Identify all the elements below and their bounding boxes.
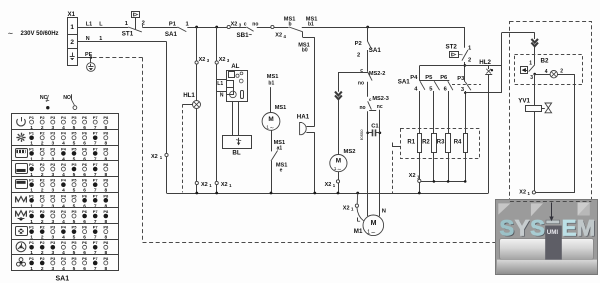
motor M1 — [354, 208, 386, 236]
connector pin X2:3 — [195, 57, 210, 64]
svg-text:X2: X2 — [343, 205, 350, 211]
svg-text:2: 2 — [357, 52, 360, 58]
svg-text:e: e — [280, 168, 283, 174]
svg-text:P1: P1 — [29, 131, 35, 136]
node B2 junction 3 — [533, 73, 536, 76]
svg-text:YV1: YV1 — [518, 98, 530, 105]
svg-text:X2: X2 — [409, 173, 416, 179]
svg-text:P1: P1 — [29, 178, 35, 183]
svg-text:P4: P4 — [61, 209, 67, 214]
svg-text:P6: P6 — [440, 75, 448, 81]
svg-text:X1: X1 — [68, 11, 76, 18]
svg-text:L1: L1 — [217, 81, 223, 87]
ignition unit AL — [217, 63, 248, 101]
svg-text:P7: P7 — [93, 146, 99, 151]
wires contacts to resistors — [420, 91, 466, 134]
svg-text:X2: X2 — [199, 57, 206, 63]
wire right riser to B2 — [502, 33, 535, 93]
svg-text:4: 4 — [62, 266, 65, 272]
svg-text:S: S — [500, 216, 515, 241]
svg-text:X2: X2 — [231, 22, 238, 28]
svg-text:P8: P8 — [103, 193, 109, 198]
svg-text:R4: R4 — [454, 140, 462, 146]
svg-text:7: 7 — [94, 266, 97, 272]
svg-text:P5: P5 — [72, 162, 78, 167]
resistor R4 — [454, 134, 468, 153]
svg-text:M: M — [268, 116, 273, 123]
svg-text:P1: P1 — [169, 21, 177, 27]
svg-text:P3: P3 — [50, 225, 56, 230]
svg-text:P2: P2 — [40, 115, 46, 120]
svg-text:P2: P2 — [40, 162, 46, 167]
wire resistor collector — [421, 180, 467, 183]
svg-text:P1: P1 — [29, 240, 35, 245]
connector pin X2:1 for M1 — [343, 193, 359, 212]
wire HL2 to bottom bus — [488, 74, 490, 193]
connector pin X2:1 under R1 — [409, 173, 421, 193]
svg-text:P7: P7 — [93, 178, 99, 183]
svg-text:MS1: MS1 — [267, 74, 279, 80]
svg-text:ST1: ST1 — [122, 30, 134, 37]
svg-text:M: M — [371, 220, 377, 227]
terminal block X1 — [67, 11, 77, 66]
connector pin X2:1 of gas unit — [519, 190, 535, 196]
svg-text:P3: P3 — [50, 178, 56, 183]
svg-text:P5: P5 — [72, 146, 78, 151]
wire bus drop to X2:3 pin (HL1 branch) — [196, 27, 198, 61]
icon grill element — [16, 196, 27, 202]
wire pin down to X2:1 — [216, 64, 218, 181]
svg-text:P2: P2 — [355, 41, 362, 47]
svg-text:X2: X2 — [275, 33, 282, 39]
relay contact MS2-3 — [360, 96, 389, 111]
svg-text:SB1~: SB1~ — [237, 32, 253, 39]
svg-text:P3: P3 — [457, 76, 465, 82]
svg-text:P3: P3 — [50, 256, 56, 261]
svg-text:MS2-3: MS2-3 — [372, 96, 388, 102]
burner igniter BL — [223, 136, 252, 157]
svg-text:P7: P7 — [93, 115, 99, 120]
svg-text:2: 2 — [70, 39, 74, 46]
dashed PE link to chassis — [93, 57, 143, 59]
svg-text:∼: ∼ — [371, 230, 376, 236]
svg-text:N: N — [86, 36, 90, 42]
svg-text:R2: R2 — [422, 140, 430, 146]
relay contact MS2-2 — [358, 68, 385, 97]
svg-text:M1: M1 — [354, 228, 363, 235]
svg-text:P6: P6 — [82, 115, 88, 120]
wire pin to lamp HL1 — [196, 64, 198, 100]
wire MS2-2 common to motor MS2 — [338, 72, 367, 74]
wire MS2-3 nc to C1 and M1 — [379, 110, 381, 217]
icon bottom heat — [16, 164, 28, 174]
svg-text:P2: P2 — [40, 193, 46, 198]
svg-text:P8: P8 — [103, 162, 109, 167]
svg-text:P8: P8 — [103, 256, 109, 261]
svg-text:P6: P6 — [82, 131, 88, 136]
capacitor C1 — [366, 124, 381, 137]
wire bus drop to X2:3 pin (AL branch) — [216, 27, 218, 61]
svg-text:P3: P3 — [50, 193, 56, 198]
changeover MS1 b/b1/b0 — [274, 17, 317, 54]
supply label 230V 50/60Hz — [8, 30, 59, 37]
svg-text:P8: P8 — [103, 131, 109, 136]
svg-text:3: 3 — [530, 75, 533, 81]
node SA1-P2 junction — [366, 26, 369, 29]
svg-text:P2: P2 — [40, 225, 46, 230]
svg-text:BL: BL — [232, 150, 240, 157]
icon convection — [16, 242, 26, 252]
connector pin X2:1 on N wire — [151, 153, 168, 193]
lamp HL2 — [479, 59, 493, 75]
legend NC symbol — [40, 95, 50, 109]
appliance boundary (dashed) — [143, 58, 497, 243]
wire HL1 alternate stub — [183, 104, 193, 106]
svg-text:P4: P4 — [61, 178, 67, 183]
svg-text:230V 50/60Hz: 230V 50/60Hz — [21, 31, 59, 37]
wire top bus MS1-b1 to ST2 corner — [302, 27, 465, 48]
svg-text:P6: P6 — [82, 146, 88, 151]
svg-text:R1: R1 — [407, 140, 415, 146]
svg-text:no: no — [252, 21, 258, 27]
connector marks (chevrons) on MS2 feed — [335, 72, 342, 155]
wire bus ST1 to SA1-P1 — [142, 27, 177, 29]
wire MS2-3 no to C1 and M1 — [367, 111, 369, 216]
wire MS1-b0 down to HA1 — [314, 37, 316, 126]
connector pin X2:3 on bus — [227, 22, 242, 29]
svg-text:P3: P3 — [50, 146, 56, 151]
icon power — [17, 117, 26, 126]
svg-text:P3: P3 — [50, 115, 56, 120]
svg-text:P1: P1 — [29, 146, 35, 151]
dashed alternate feed for HL1 — [182, 104, 184, 192]
svg-text:P4: P4 — [61, 256, 67, 261]
thermostat ST1 — [122, 12, 145, 38]
svg-text:SA1: SA1 — [165, 31, 178, 38]
wire MS1 to thermal contact — [271, 130, 273, 151]
watermark logo — [496, 200, 598, 275]
node ST2 output junction — [464, 64, 467, 67]
icon grill top — [16, 149, 28, 158]
svg-text:P1: P1 — [29, 193, 35, 198]
svg-text:P3: P3 — [50, 131, 56, 136]
svg-text:P6: P6 — [82, 162, 88, 167]
wire HA1 to bus — [314, 132, 316, 193]
solenoid valve YV1 — [518, 74, 551, 191]
svg-text:c: c — [360, 68, 363, 74]
svg-text:b1: b1 — [308, 21, 314, 27]
icon fan — [17, 258, 26, 266]
svg-text:N: N — [220, 92, 224, 98]
svg-text:HL1: HL1 — [183, 92, 195, 99]
svg-text:X2: X2 — [201, 182, 208, 188]
svg-text:∼: ∼ — [337, 167, 342, 173]
svg-text:SA1: SA1 — [369, 47, 382, 54]
svg-text:X2: X2 — [519, 190, 526, 196]
svg-text:∼: ∼ — [8, 30, 14, 37]
svg-text:P6: P6 — [82, 193, 88, 198]
selector SA1 resistor contacts — [398, 75, 481, 93]
connector pin X2:1 — [215, 181, 232, 193]
motor MS1 — [262, 105, 286, 132]
svg-text:6: 6 — [83, 266, 86, 272]
icon fan oven — [16, 227, 28, 236]
svg-text:4: 4 — [545, 69, 548, 75]
svg-text:NC: NC — [40, 95, 48, 101]
wire N from X1 — [77, 36, 166, 153]
svg-text:3: 3 — [51, 266, 54, 272]
heating element box (dashed) — [401, 129, 480, 159]
svg-text:P4: P4 — [410, 75, 418, 81]
wire AL to BL (two leads) — [233, 102, 239, 136]
svg-text:P5: P5 — [72, 178, 78, 183]
svg-text:SA1: SA1 — [398, 78, 411, 85]
svg-text:X2: X2 — [219, 57, 226, 63]
contact B2 1-3 with sensor — [521, 60, 535, 81]
svg-text:P4: P4 — [61, 225, 67, 230]
switch SA1 contact P1-1 — [165, 21, 190, 38]
svg-text:NO: NO — [63, 95, 71, 101]
svg-text:P5: P5 — [72, 193, 78, 198]
svg-text:X2: X2 — [221, 182, 228, 188]
svg-text:P5: P5 — [72, 131, 78, 136]
svg-text:P1: P1 — [29, 225, 35, 230]
thermostat ST2 — [446, 44, 473, 82]
svg-text:8: 8 — [104, 266, 107, 272]
svg-text:P7: P7 — [93, 209, 99, 214]
svg-text:P1: P1 — [29, 115, 35, 120]
svg-text:P4: P4 — [61, 240, 67, 245]
connector pin X2:1 under MS2 — [325, 172, 340, 193]
svg-text:P1: P1 — [29, 162, 35, 167]
svg-text:M: M — [336, 158, 341, 165]
svg-text:1: 1 — [367, 230, 370, 236]
igniter B2 2-4 — [535, 69, 575, 78]
motor MS2 — [330, 149, 356, 173]
flame supervision box B2 (dashed) — [515, 55, 583, 85]
svg-text:MS2-2: MS2-2 — [369, 71, 385, 77]
svg-text:P8: P8 — [103, 240, 109, 245]
icon grill+fan — [16, 211, 27, 221]
svg-text:P7: P7 — [93, 162, 99, 167]
svg-text:ST2: ST2 — [446, 44, 458, 51]
svg-text:rosso: rosso — [359, 129, 364, 140]
wire P3 contact to right riser — [464, 92, 502, 94]
svg-text:M: M — [577, 216, 595, 241]
svg-text:P5: P5 — [72, 240, 78, 245]
svg-text:P1: P1 — [29, 256, 35, 261]
svg-text:P4: P4 — [61, 193, 67, 198]
svg-text:5: 5 — [73, 266, 76, 272]
thermal contact MS1 a1/e — [271, 140, 287, 174]
svg-text:X2: X2 — [325, 182, 332, 188]
svg-text:P5: P5 — [425, 75, 433, 81]
svg-text:P5: P5 — [72, 115, 78, 120]
svg-text:L: L — [357, 218, 361, 224]
dashed bottom of gas unit over watermark — [510, 201, 591, 203]
svg-text:B2: B2 — [541, 58, 549, 65]
svg-text:P7: P7 — [93, 256, 99, 261]
svg-text:P8: P8 — [103, 225, 109, 230]
svg-text:no: no — [358, 80, 364, 86]
svg-text:nc: nc — [377, 104, 383, 110]
svg-text:E: E — [562, 216, 577, 241]
protective earth PE — [77, 52, 95, 71]
connector marks (chevrons) on B2 feed — [531, 33, 538, 65]
svg-text:2: 2 — [468, 58, 471, 64]
svg-text:2: 2 — [560, 69, 563, 75]
svg-text:b1: b1 — [268, 80, 274, 86]
svg-text:P7: P7 — [93, 225, 99, 230]
connector pin X2:4 on bus — [271, 25, 287, 38]
svg-text:HL2: HL2 — [479, 59, 491, 66]
wire contact e to bus — [271, 161, 273, 193]
resistor R1 — [407, 134, 421, 153]
svg-text:b: b — [289, 22, 292, 28]
svg-text:1: 1 — [70, 24, 74, 31]
svg-text:P2: P2 — [40, 146, 46, 151]
svg-text:R3: R3 — [437, 140, 445, 146]
svg-text:P1: P1 — [29, 209, 35, 214]
contact MS1 b1 feed — [267, 74, 279, 113]
svg-text:SA1: SA1 — [56, 276, 70, 283]
wire HL1 to X2:1 pin — [196, 109, 198, 182]
wire bus SA1-P1 to SB1 — [187, 26, 227, 29]
wire ST2 junction to right riser — [465, 65, 502, 67]
wires resistors to collector — [420, 152, 466, 181]
svg-text:b0: b0 — [302, 48, 308, 54]
svg-text:c: c — [244, 21, 247, 27]
svg-text:1: 1 — [529, 60, 532, 66]
svg-text:P2: P2 — [40, 178, 46, 183]
svg-text:UMI: UMI — [547, 229, 559, 236]
svg-text:P4: P4 — [61, 131, 67, 136]
svg-text:2: 2 — [41, 266, 44, 272]
svg-text:P7: P7 — [93, 193, 99, 198]
svg-text:P8: P8 — [103, 115, 109, 120]
svg-text:1: 1 — [99, 36, 102, 42]
svg-text:P6: P6 — [82, 209, 88, 214]
svg-text:MS2: MS2 — [344, 149, 356, 155]
svg-text:S: S — [530, 216, 545, 241]
svg-text:P2: P2 — [40, 240, 46, 245]
connector pin X2:3 — [215, 57, 230, 64]
svg-text:P3: P3 — [50, 209, 56, 214]
svg-text:P7: P7 — [93, 131, 99, 136]
svg-text:P8: P8 — [103, 209, 109, 214]
svg-text:P4: P4 — [61, 162, 67, 167]
svg-text:P5: P5 — [72, 225, 78, 230]
svg-text:a1: a1 — [277, 145, 283, 151]
wire B2-2 return — [536, 74, 575, 193]
svg-text:P5: P5 — [72, 209, 78, 214]
svg-text:P3: P3 — [50, 240, 56, 245]
svg-text:P2: P2 — [40, 256, 46, 261]
buzzer HA1 — [297, 114, 315, 135]
svg-text:L1: L1 — [86, 22, 92, 28]
neutral bottom bus — [167, 192, 489, 195]
svg-text:Y: Y — [515, 216, 530, 241]
svg-text:P2: P2 — [40, 131, 46, 136]
icon top heat — [16, 180, 28, 189]
svg-text:no: no — [360, 105, 366, 111]
push-button SB1 — [230, 21, 270, 39]
svg-text:P6: P6 — [82, 225, 88, 230]
svg-text:X2: X2 — [151, 154, 158, 160]
svg-text:P4: P4 — [61, 146, 67, 151]
dashed chassis link down — [392, 151, 394, 193]
wire L1 from X1 to ST1 — [77, 22, 128, 28]
switch SA1 contact P2-2 — [355, 27, 382, 72]
lamp HL1 — [183, 92, 200, 108]
legend NO symbol — [63, 94, 77, 109]
svg-text:N: N — [382, 208, 386, 214]
svg-text:1: 1 — [30, 266, 33, 272]
selector SA1 program table — [12, 114, 119, 272]
resistor R2 — [422, 134, 436, 153]
resistor R3 — [437, 134, 451, 153]
svg-text:P6: P6 — [82, 240, 88, 245]
svg-text:P8: P8 — [103, 146, 109, 151]
icon light/defrost — [16, 133, 25, 142]
connector pin X2:1 — [195, 181, 212, 193]
wire pin to M1 L terminal — [357, 207, 364, 223]
svg-text:MS1: MS1 — [275, 105, 287, 111]
svg-text:P5: P5 — [72, 256, 78, 261]
svg-text:P3: P3 — [50, 162, 56, 167]
svg-text:P4: P4 — [61, 115, 67, 120]
svg-text:P2: P2 — [40, 209, 46, 214]
svg-text:C1: C1 — [371, 124, 379, 130]
svg-text:P6: P6 — [82, 178, 88, 183]
svg-text:P8: P8 — [103, 178, 109, 183]
svg-text:HA1: HA1 — [297, 114, 310, 121]
svg-text:P7: P7 — [93, 240, 99, 245]
svg-text:AL: AL — [231, 63, 239, 70]
wire feed to SA1 resistor bank — [420, 66, 465, 81]
svg-text:P6: P6 — [82, 256, 88, 261]
chassis stub of heating box — [392, 143, 401, 147]
gas unit boundary (dashed) — [510, 22, 592, 202]
